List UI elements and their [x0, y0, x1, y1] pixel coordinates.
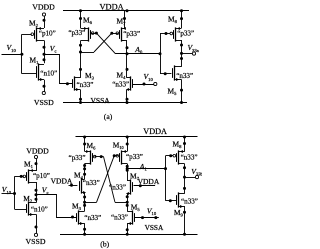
svg-text:“n33”: “n33” [112, 81, 129, 89]
svg-text:“p10”: “p10” [39, 30, 56, 38]
wire M10 source [126, 137, 129, 151]
wire input gate connector (b) [14, 176, 16, 209]
wire A0 to output gates [159, 34, 162, 74]
transistor M1 label [30, 56, 40, 66]
wire M9 gate [166, 199, 177, 202]
power VDDD (b) [26, 146, 49, 171]
transistor M8 label [168, 15, 178, 25]
transistor M5 label [168, 87, 178, 97]
svg-text:(b): (b) [100, 240, 109, 249]
svg-text:“n33”: “n33” [83, 179, 100, 187]
node A0 wire [116, 45, 161, 55]
wire M10 drain [126, 164, 129, 181]
wire M2b source to VSSD [35, 214, 38, 233]
transistor M2b label [23, 194, 33, 204]
ground VSSD (a) [34, 91, 54, 106]
output V33b (b) [185, 167, 204, 179]
input V10 terminal label (a) [144, 72, 154, 82]
transistor M7b n33 NMOS mirrored [109, 179, 132, 195]
wire M9 source [183, 206, 186, 236]
transistor M6 p33 PMOS [68, 27, 94, 42]
wire M4b source [83, 192, 86, 211]
wire left cross stub [85, 202, 97, 204]
node Vc (a) [43, 40, 57, 63]
transistor M4 label [117, 71, 127, 81]
svg-text:VDDA: VDDA [143, 127, 167, 136]
svg-text:“n10”: “n10” [31, 206, 48, 214]
svg-text:“n33”: “n33” [181, 154, 198, 162]
svg-text:“n33”: “n33” [176, 72, 193, 80]
node A1 wire [126, 162, 166, 172]
ground rail VSSA (b) [60, 223, 198, 235]
transistor M3 n33 NMOS [73, 76, 94, 91]
wire M7 drain [126, 41, 129, 78]
wire M6 source [79, 11, 82, 28]
wire M1b gate [15, 175, 24, 178]
ground VSSD (b) [26, 233, 46, 246]
svg-text:VDDD: VDDD [26, 146, 49, 155]
wire M6b gate [95, 155, 104, 158]
transistor M5b label [131, 202, 141, 212]
svg-text:“n10”: “n10” [40, 69, 57, 77]
wire M4 gate to V10 terminal [133, 82, 157, 85]
transistor M5b n33 NMOS mirrored [111, 210, 135, 225]
wire M6 gate [91, 32, 98, 35]
wire M6b source [83, 137, 86, 151]
transistor M9 label [174, 208, 184, 218]
transistor M1 n10 NMOS [37, 63, 58, 81]
wire M3b source [83, 223, 86, 236]
transistor M8b n33 with gate bubble [173, 150, 198, 165]
wire M2b gate [15, 209, 27, 211]
transistor M6 label [83, 16, 93, 26]
input V10 label (b) [147, 206, 157, 216]
svg-text:VDDA: VDDA [100, 2, 124, 11]
input Vin (b) [2, 185, 17, 195]
svg-text:“n33”: “n33” [77, 81, 94, 89]
transistor M7 label [117, 17, 127, 27]
svg-text:VDDA: VDDA [51, 177, 73, 186]
transistor M7b label [130, 172, 140, 182]
power VDDD (a) [32, 3, 55, 29]
node Vc (b) [35, 182, 49, 203]
svg-text:VDDA: VDDA [138, 177, 160, 186]
svg-text:VSSD: VSSD [26, 237, 46, 246]
transistor M7 p33 PMOS [116, 27, 140, 42]
wire M5b gate to V10 terminal [135, 216, 159, 219]
transistor M4 n33 NMOS mirrored [112, 76, 132, 91]
transistor M3b label [72, 201, 82, 211]
wire VDDA to M4b gate [51, 177, 78, 187]
transistor M2 p10 PMOS [31, 27, 56, 42]
transistor M9 n33 NMOS [177, 192, 198, 208]
wire M8 source [180, 11, 183, 28]
wire M8 gate [160, 32, 170, 35]
svg-text:(a): (a) [104, 112, 113, 121]
transistor M4b n33 NMOS [80, 178, 100, 194]
transistor M6b p33 PMOS mirrored [69, 150, 96, 165]
wire M8b drain to M9 drain [183, 164, 186, 194]
svg-text:“p33”: “p33” [68, 29, 85, 37]
wire Vc to M3b gate [36, 195, 77, 219]
transistor M8 p33 PMOS [170, 27, 194, 42]
transistor M4b label [74, 170, 84, 180]
wire M10 gate [113, 154, 118, 157]
transistor M10 label [113, 141, 124, 151]
svg-text:“n33”: “n33” [181, 197, 198, 205]
output V33a (a) [182, 43, 199, 55]
transistor M10 p33 PMOS [116, 150, 143, 165]
svg-text:“p33”: “p33” [177, 30, 194, 38]
wire M1 source to VSSD [43, 80, 46, 92]
power rail VDDA (a) [63, 2, 189, 12]
wire M4 source [126, 90, 129, 104]
transistor M5 n33 NMOS [173, 65, 194, 81]
svg-text:“n33”: “n33” [109, 183, 126, 191]
caption (b) [100, 240, 109, 249]
transistor M3b n33 NMOS [77, 210, 102, 225]
wire M6b drain [83, 164, 86, 180]
wire M5 gate [160, 72, 171, 75]
wire M6 drain [79, 41, 82, 78]
wire A1 to output gates [164, 156, 167, 201]
wire cross diagonal from M10 gate [97, 156, 115, 203]
wire M8b source [183, 137, 186, 152]
transistor M1b label [24, 160, 34, 170]
svg-text:“p33”: “p33” [123, 30, 140, 38]
svg-text:“p33”: “p33” [126, 153, 143, 161]
wire cross-couple diagonal M6gate [96, 33, 115, 54]
transistor M2 label [29, 18, 39, 28]
transistor M2b n10 NMOS [27, 201, 48, 216]
wire M3 source [79, 90, 82, 104]
wire cross diagonal from M6b gate [104, 157, 116, 203]
caption (a) [104, 112, 113, 121]
transistor M1b p10 PMOS [23, 169, 50, 184]
svg-text:“n33”: “n33” [111, 214, 128, 222]
wire M7 gate [110, 32, 118, 35]
wire input gate connector [20, 34, 23, 73]
wire M2 gate [22, 34, 32, 36]
svg-text:VDDD: VDDD [32, 3, 55, 12]
transistor M6b label [87, 141, 97, 151]
wire M5b source [126, 223, 129, 236]
wire M7b gate to VDDA [134, 177, 160, 187]
wire M7b source [126, 194, 129, 211]
power rail VDDA (b) [76, 127, 198, 138]
svg-text:VSSD: VSSD [34, 98, 54, 107]
transistor M8b label [173, 140, 183, 150]
svg-text:VSSA: VSSA [91, 96, 111, 105]
wire M8 drain to M5 drain [180, 40, 183, 67]
wire left latch stub [81, 52, 95, 54]
svg-text:VSSA: VSSA [145, 223, 164, 232]
wire M7 source [123, 11, 126, 28]
wire cross-couple diagonal M7gate [94, 33, 112, 52]
wire M1 gate [22, 73, 37, 75]
wire M5 source [180, 80, 183, 105]
ground rail VSSA (a) [63, 96, 187, 105]
wire right cross stub [115, 202, 127, 204]
svg-text:“p33”: “p33” [69, 154, 86, 162]
transistor M3 label [85, 71, 95, 81]
wire M8b gate [166, 154, 174, 157]
input Vin (a) [2, 43, 22, 54]
svg-text:“p10”: “p10” [33, 172, 50, 180]
svg-text:“n33”: “n33” [84, 214, 101, 222]
wire Vc to M3 gate [44, 55, 72, 86]
